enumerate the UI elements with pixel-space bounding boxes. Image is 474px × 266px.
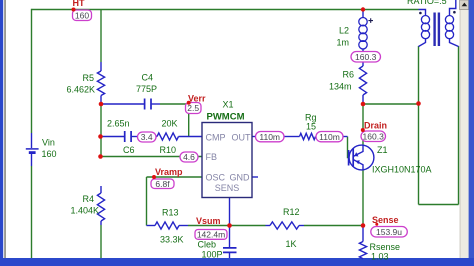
capacitor Cleb lead bottom <box>229 253 231 258</box>
svg-text:R6: R6 <box>343 70 355 80</box>
wire OSC row <box>147 176 203 178</box>
wire FB row <box>101 156 203 158</box>
transformer primary bottom lead <box>419 39 426 47</box>
capacitor C4 lead left <box>101 103 144 105</box>
transformer secondary winding coil <box>445 16 453 39</box>
wire Vsum to R12 <box>230 225 266 227</box>
scrollbar up arrow <box>462 3 468 7</box>
svg-text:110m: 110m <box>259 132 280 142</box>
svg-text:142.4m: 142.4m <box>197 229 225 239</box>
resistor R13 lead right <box>179 225 188 227</box>
transformer primary polarity dot <box>419 12 422 15</box>
svg-text:R4: R4 <box>82 194 94 204</box>
battery Vin lead bottom <box>31 154 33 167</box>
window bottom border strip <box>0 258 474 266</box>
svg-text:1.03: 1.03 <box>371 252 389 262</box>
transformer secondary top lead <box>450 0 456 16</box>
node voltage box 2.5 (Verr) <box>186 103 202 114</box>
svg-text:100P: 100P <box>202 250 223 260</box>
svg-text:R13: R13 <box>162 208 179 218</box>
wire secondary return bottom <box>419 204 459 206</box>
svg-text:160: 160 <box>42 149 57 159</box>
transformer secondary bottom lead <box>450 39 459 47</box>
resistor R6 lead bottom <box>362 95 364 104</box>
svg-text:6.8f: 6.8f <box>155 179 170 189</box>
pin stub GND <box>252 176 258 178</box>
wire top rail <box>32 9 419 11</box>
svg-text:RATIO=.5: RATIO=.5 <box>407 0 447 6</box>
junction Sense / Rsense <box>361 223 366 228</box>
inductor L2 lead top <box>362 10 364 18</box>
svg-text:C6: C6 <box>123 145 135 155</box>
junction FB row <box>98 154 103 159</box>
window right border strip <box>469 0 474 266</box>
wire drain column upper <box>362 104 364 145</box>
transformer primary top lead <box>419 10 426 16</box>
transistor Z1 emitter arrow <box>356 160 360 164</box>
svg-text:Rsense: Rsense <box>370 242 401 252</box>
pin stub SENS <box>229 198 231 226</box>
svg-text:153.9u: 153.9u <box>376 227 402 237</box>
svg-text:R12: R12 <box>283 207 300 217</box>
svg-text:R5: R5 <box>82 73 94 83</box>
svg-text:1m: 1m <box>337 38 350 48</box>
window left border strip <box>0 0 3 266</box>
svg-text:15: 15 <box>306 122 316 132</box>
resistor Rsense zigzag <box>359 242 366 259</box>
resistor R10 zigzag <box>157 133 179 140</box>
capacitor C4 plates <box>145 99 151 110</box>
scrollbar track <box>460 0 469 266</box>
capacitor Cleb plates <box>223 248 237 253</box>
resistor R12 zigzag <box>270 222 299 229</box>
svg-text:PWMCM: PWMCM <box>207 112 245 123</box>
node voltage box 160 (HT) <box>73 10 92 21</box>
wire Vsum to R13 <box>188 225 230 227</box>
svg-text:160: 160 <box>75 11 89 21</box>
node voltage box 110m left <box>256 132 285 142</box>
svg-text:OUT: OUT <box>232 133 252 143</box>
resistor R6 zigzag <box>359 66 366 95</box>
svg-text:L2: L2 <box>339 26 349 36</box>
svg-text:160.3: 160.3 <box>363 131 385 141</box>
node Drain anchor dot <box>361 128 365 132</box>
inductor L2 polarity plus <box>368 18 373 23</box>
svg-text:775P: 775P <box>136 84 157 94</box>
wire R12 to Sense <box>304 225 363 227</box>
svg-text:Cleb: Cleb <box>198 240 217 250</box>
node voltage box 4.6 <box>180 152 198 162</box>
svg-text:IXGH10N170A: IXGH10N170A <box>372 165 432 175</box>
pin stub OUT <box>252 136 256 138</box>
transformer core bars <box>435 13 439 47</box>
resistor Rg lead right <box>343 136 348 138</box>
resistor R5 zigzag <box>97 71 104 96</box>
svg-text:110m: 110m <box>319 132 340 142</box>
inductor L2 lead bottom <box>362 49 364 66</box>
transistor Z1 gate bar <box>348 150 350 166</box>
resistor R13 lead left <box>147 225 156 227</box>
inductor L2 coil <box>359 18 367 50</box>
svg-text:33.3K: 33.3K <box>160 235 184 245</box>
node Verr anchor dot <box>187 101 191 105</box>
node voltage box 160.3 (L2) <box>351 52 381 63</box>
svg-text:Vin: Vin <box>42 138 55 148</box>
capacitor C4 lead right <box>152 103 160 105</box>
capacitor C6 plates <box>125 131 131 142</box>
wire emitter column <box>362 171 364 226</box>
svg-text:6.462K: 6.462K <box>66 85 95 95</box>
wire left rail upper <box>31 9 33 133</box>
resistor R10 lead left <box>153 136 157 138</box>
svg-text:R10: R10 <box>160 145 177 155</box>
capacitor C6 lead right <box>132 136 140 138</box>
svg-text:160.3: 160.3 <box>355 52 377 62</box>
junction top rail / L2 <box>361 7 365 11</box>
wire C4 row <box>160 103 189 105</box>
svg-text:FB: FB <box>206 152 218 162</box>
wire secondary return right rail <box>458 46 460 205</box>
svg-text:C4: C4 <box>142 73 154 83</box>
svg-text:134m: 134m <box>329 82 352 92</box>
battery Vin long plate <box>26 148 39 150</box>
node voltage box 160.3 (Drain) <box>361 131 386 142</box>
node voltage box 3.4 <box>138 132 157 142</box>
node Sense anchor dot <box>375 223 378 226</box>
scrollbar track left edge <box>459 0 462 266</box>
resistor R4 leads <box>100 186 102 225</box>
wire gate drop <box>348 137 349 158</box>
svg-text:Z1: Z1 <box>377 145 388 155</box>
wire left rail lower <box>31 166 33 258</box>
wire R4 branch lower <box>100 225 102 258</box>
capacitor Cleb lead top <box>229 226 231 248</box>
svg-text:X1: X1 <box>223 100 234 110</box>
scrollbar up button <box>460 0 469 10</box>
resistor R5 leads <box>100 62 102 104</box>
wire R5 branch top <box>100 10 102 63</box>
node voltage box 153.9u (Sense) <box>371 227 408 238</box>
wire Vramp drop <box>146 177 148 226</box>
transformer secondary polarity dot <box>453 11 456 14</box>
capacitor C6 lead left <box>101 136 125 138</box>
svg-text:1K: 1K <box>286 239 297 249</box>
transistor Z1 collector path <box>354 145 363 156</box>
svg-text:Vsum: Vsum <box>196 216 221 226</box>
transistor Z1 base bar <box>352 149 354 168</box>
resistor R10 lead right into CMP pin <box>179 136 203 138</box>
node voltage box 6.8f (Vramp) <box>151 179 174 189</box>
op-amp U1 macro box X1 PWMCM <box>202 123 252 198</box>
battery Vin lead top <box>31 133 33 148</box>
svg-text:Vramp: Vramp <box>155 167 183 177</box>
transistor Z1 emitter path <box>354 160 363 171</box>
junction R5 / C4 <box>99 102 104 107</box>
junction transformer bottom <box>416 101 421 106</box>
svg-text:2.5: 2.5 <box>187 103 199 113</box>
wire R5 branch middle <box>100 104 102 157</box>
resistor R13 zigzag <box>155 222 179 229</box>
junction Vsum <box>227 223 232 228</box>
transistor Z1 body circle <box>349 145 374 170</box>
svg-text:OSC: OSC <box>206 173 226 183</box>
resistor R4 zigzag <box>97 193 104 221</box>
wire transformer left winding bottom drop <box>418 46 420 205</box>
wire OUT row between value boxes <box>284 136 300 138</box>
svg-text:SENS: SENS <box>215 183 240 193</box>
svg-text:CMP: CMP <box>206 133 226 143</box>
battery Vin short plate <box>29 151 36 154</box>
junction drain row <box>361 102 366 107</box>
resistor Rsense lead top <box>362 226 364 242</box>
svg-text:3.4: 3.4 <box>141 132 153 142</box>
svg-text:20K: 20K <box>162 119 178 129</box>
resistor R12 lead left <box>266 225 271 227</box>
svg-text:1.404K: 1.404K <box>70 206 99 216</box>
svg-text:Drain: Drain <box>364 121 387 131</box>
resistor R12 lead right <box>299 225 304 227</box>
node Vramp anchor dot <box>152 175 156 179</box>
window left inner edge line <box>4 0 6 266</box>
wire Verr drop <box>188 104 190 137</box>
junction C6 row <box>98 134 103 139</box>
svg-text:2.65n: 2.65n <box>107 119 130 129</box>
wire drain row to transformer <box>363 103 419 105</box>
node HT anchor dot <box>72 8 76 12</box>
svg-text:GND: GND <box>230 173 251 183</box>
svg-text:HT: HT <box>73 0 85 8</box>
node voltage box 110m right <box>316 132 343 142</box>
svg-text:4.6: 4.6 <box>183 152 195 162</box>
resistor Rg zigzag <box>300 133 316 139</box>
node voltage box 142.4m (Vsum) <box>195 230 227 240</box>
transformer primary winding coil <box>421 16 429 39</box>
transistor Z1 collector arrow <box>354 152 358 156</box>
